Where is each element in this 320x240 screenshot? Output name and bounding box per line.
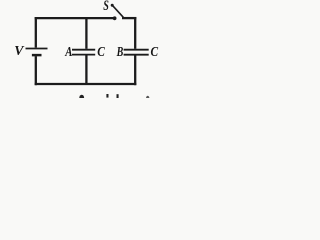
svg-text:A: A	[64, 45, 72, 60]
svg-text:B: B	[116, 45, 123, 60]
svg-text:C: C	[151, 45, 159, 60]
svg-text:C: C	[97, 45, 105, 60]
svg-text:S: S	[103, 0, 109, 14]
svg-text:V: V	[14, 44, 25, 59]
